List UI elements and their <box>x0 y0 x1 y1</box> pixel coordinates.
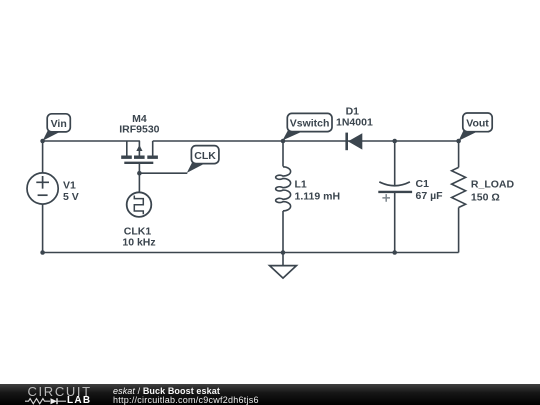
svg-text:CLK: CLK <box>194 150 216 162</box>
svg-text:1N4001: 1N4001 <box>336 116 373 128</box>
M4 middle finger bar <box>134 155 145 158</box>
node bottom left junction <box>40 250 45 255</box>
node flag Vin <box>43 114 71 141</box>
node flag CLK <box>187 146 219 173</box>
svg-text:IRF9530: IRF9530 <box>119 124 159 136</box>
node flag Vout <box>459 113 493 141</box>
footer title line <box>113 386 220 396</box>
svg-text:150 Ω: 150 Ω <box>471 191 500 203</box>
svg-text:R_LOAD: R_LOAD <box>471 179 515 191</box>
wire gate of M4 to CLK node <box>139 164 187 193</box>
svg-text:10 kHz: 10 kHz <box>122 237 155 249</box>
svg-text:V1: V1 <box>63 179 76 191</box>
wire L1 top lead <box>282 141 284 167</box>
wire Vswitch to Vout rail <box>283 140 459 142</box>
wire L1 bottom lead <box>282 211 284 253</box>
svg-text:Vswitch: Vswitch <box>290 118 330 130</box>
node flag Vswitch <box>283 113 333 140</box>
ground <box>270 266 297 279</box>
svg-text:67 µF: 67 µF <box>416 190 444 202</box>
diode D1 <box>347 133 363 151</box>
CircuitLab logo resistor-diode glyph <box>24 396 74 405</box>
svg-text:1.119 mH: 1.119 mH <box>295 191 341 203</box>
resistor R_LOAD <box>452 167 466 207</box>
wire R_LOAD top lead <box>458 141 460 167</box>
M4 left stub <box>126 141 128 156</box>
svg-text:CLK1: CLK1 <box>124 226 152 238</box>
wire ground stub <box>282 253 284 266</box>
svg-text:L1: L1 <box>295 179 307 191</box>
wire left branch V1 top <box>42 141 44 173</box>
svg-text:Vin: Vin <box>51 118 67 130</box>
wire top rail right (M4 to Vswitch node) <box>153 141 283 156</box>
node Vswitch junction <box>281 139 286 144</box>
wire R_LOAD bottom lead <box>458 208 460 253</box>
footer bar <box>0 384 540 405</box>
M4 source arrow <box>136 145 142 151</box>
CircuitLab logo word CIRCUIT <box>28 384 92 399</box>
transistor Q M4 IRF9530 <box>121 141 158 163</box>
voltage source V1 <box>27 173 58 204</box>
M4 source finger bar <box>121 155 132 158</box>
footer url line <box>113 395 259 405</box>
M4 gate plate <box>124 162 153 164</box>
wire left branch V1 bottom <box>42 204 44 252</box>
node C1 top junction <box>392 139 397 144</box>
node C1 bottom junction <box>392 250 397 255</box>
node Vout junction <box>456 139 461 144</box>
svg-text:5 V: 5 V <box>63 191 79 203</box>
wire bottom rail <box>43 252 459 254</box>
node ground junction <box>281 250 286 255</box>
junction dots <box>40 139 461 255</box>
node Vin junction <box>40 139 45 144</box>
node gate junction <box>137 171 142 176</box>
wire top rail left (Vin to M4) <box>43 141 140 156</box>
svg-text:Vout: Vout <box>466 118 489 130</box>
clock source CLK1 <box>127 192 152 217</box>
svg-text:C1: C1 <box>416 178 430 190</box>
wire C1 bottom lead <box>394 192 396 253</box>
capacitor C1 <box>378 182 412 202</box>
inductor L1 <box>276 167 291 211</box>
CircuitLab logo word LAB <box>67 395 91 405</box>
M4 drain finger bar <box>147 155 158 158</box>
wire C1 top lead <box>394 141 396 186</box>
